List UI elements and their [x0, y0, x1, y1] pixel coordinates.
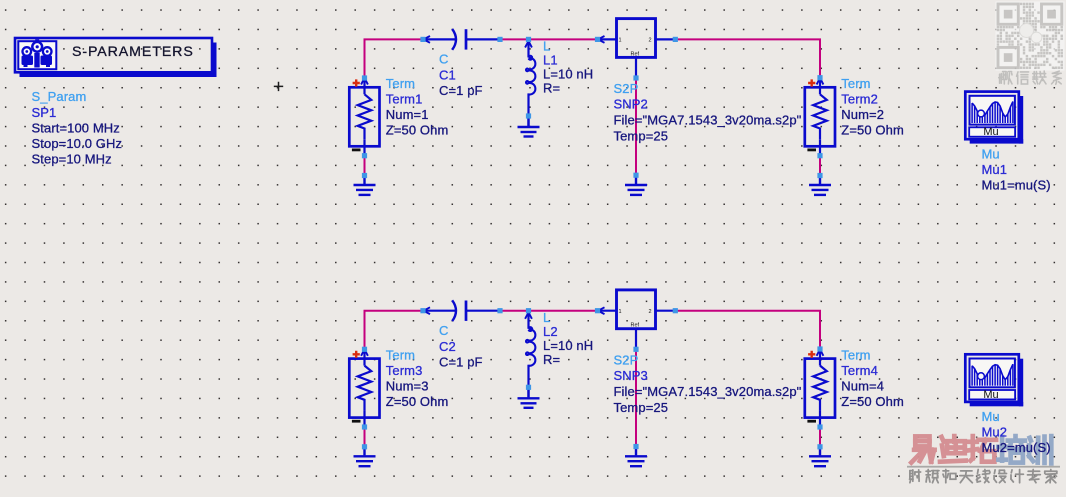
wire SNP3 to Term4 — [675, 311, 820, 349]
label Term3 — [386, 347, 449, 409]
svg-text:Ref: Ref — [631, 51, 640, 57]
svg-text:Temp=25: Temp=25 — [614, 400, 669, 415]
plus marker Term3 — [353, 351, 360, 358]
plus marker Term2 — [808, 79, 815, 86]
svg-text:Step=10 MHz: Step=10 MHz — [32, 151, 112, 166]
s2p block SNP2 — [598, 19, 676, 78]
label L1 — [543, 39, 593, 96]
svg-text:Z=50 Ohm: Z=50 Ohm — [386, 394, 449, 409]
ground — [354, 176, 376, 195]
S-PARAMETERS controller SP1 — [15, 38, 217, 77]
svg-text:S_Param: S_Param — [32, 89, 87, 104]
minus marker Term3 — [352, 420, 361, 423]
svg-text:L=10 nH: L=10 nH — [543, 338, 593, 353]
svg-text:Mu1=mu(S): Mu1=mu(S) — [982, 177, 1051, 192]
gears icon — [22, 39, 53, 67]
svg-text:Mu: Mu — [983, 389, 998, 401]
watermark logo text — [911, 436, 1051, 463]
svg-text:Start=100 MHz: Start=100 MHz — [32, 121, 120, 136]
label C2 — [439, 323, 483, 370]
svg-text:C=1 pF: C=1 pF — [439, 354, 483, 369]
wire C2 to SNP3 — [500, 310, 598, 312]
watermark subtitle — [910, 470, 1057, 483]
mu block Mu2 — [965, 354, 1023, 406]
svg-text:Stop=10.0 GHz: Stop=10.0 GHz — [32, 136, 123, 151]
label Mu1 — [982, 146, 1051, 192]
svg-text:Mu: Mu — [982, 146, 1000, 161]
mu block Mu1 — [965, 92, 1023, 144]
plus marker Term1 — [353, 79, 360, 86]
terminator Term4 — [805, 349, 835, 427]
minus marker Term1 — [352, 149, 361, 152]
svg-text:Mu: Mu — [982, 409, 1000, 424]
label Mu2 — [982, 409, 1051, 455]
svg-text:File="MGA7.1543_3v20ma.s2p": File="MGA7.1543_3v20ma.s2p" — [614, 384, 802, 399]
ground — [809, 176, 831, 195]
svg-text:Z=50 Ohm: Z=50 Ohm — [386, 123, 449, 138]
ground — [625, 175, 647, 195]
wire Term3 to ground — [364, 427, 366, 447]
svg-text:Temp=25: Temp=25 — [614, 129, 669, 144]
svg-text:SNP3: SNP3 — [614, 368, 648, 383]
origin cross marker — [274, 82, 283, 91]
plus marker Term4 — [808, 351, 815, 358]
svg-text:R=: R= — [543, 81, 560, 96]
wire SNP2 to Term2 — [675, 39, 820, 77]
svg-text:S-PARAMETERS: S-PARAMETERS — [72, 44, 194, 60]
label L2 — [543, 310, 593, 367]
svg-text:2: 2 — [649, 309, 652, 315]
wire junctions — [362, 37, 823, 178]
minus marker Term2 — [807, 149, 816, 152]
watermark underline — [907, 466, 1060, 468]
label C1 — [439, 52, 483, 99]
label SNP2 — [614, 81, 802, 144]
svg-text:Term: Term — [841, 76, 870, 91]
svg-text:Num=2: Num=2 — [841, 107, 884, 122]
ground — [518, 387, 540, 408]
svg-text:Term: Term — [386, 76, 415, 91]
wire C1 to SNP2 — [500, 38, 598, 40]
svg-text:L2: L2 — [543, 324, 558, 339]
capacitor C2 — [423, 300, 500, 321]
wire Term2 to ground — [819, 156, 821, 176]
svg-text:Num=4: Num=4 — [841, 378, 884, 393]
svg-text:L=10 nH: L=10 nH — [543, 67, 593, 82]
svg-text:1: 1 — [619, 309, 622, 315]
svg-text:Num=3: Num=3 — [386, 378, 429, 393]
ground — [809, 447, 831, 466]
label SP1 — [32, 89, 123, 166]
svg-text:Ref: Ref — [631, 323, 640, 329]
svg-text:Num=1: Num=1 — [386, 107, 429, 122]
svg-text:Term2: Term2 — [841, 92, 878, 107]
svg-text:C: C — [439, 52, 449, 67]
svg-text:L: L — [543, 39, 550, 54]
svg-text:C: C — [439, 323, 449, 338]
wire junctions — [362, 308, 823, 449]
wire SNP2 to ground — [635, 78, 637, 175]
svg-text:SP1: SP1 — [32, 105, 57, 120]
terminator Term2 — [805, 78, 835, 156]
label Term1 — [386, 76, 449, 138]
inductor L2 — [525, 311, 535, 397]
s2p block SNP3 — [598, 290, 676, 349]
qr code watermark — [996, 2, 1065, 71]
ground — [354, 447, 376, 466]
terminator Term1 — [349, 78, 379, 156]
svg-text:Mu2: Mu2 — [982, 425, 1008, 440]
svg-text:1: 1 — [619, 38, 622, 44]
svg-text:Term3: Term3 — [386, 363, 423, 378]
wire Term1 to ground — [364, 156, 366, 176]
wire Term4 to ground — [819, 427, 821, 447]
svg-text:S2P: S2P — [614, 352, 639, 367]
svg-text:Z=50 Ohm: Z=50 Ohm — [841, 123, 904, 138]
capacitor C1 — [423, 29, 500, 50]
svg-text:C2: C2 — [439, 339, 456, 354]
wechat contact text — [999, 71, 1061, 84]
svg-text:R=: R= — [543, 352, 560, 367]
svg-text:Term: Term — [841, 347, 870, 362]
svg-text:C=1 pF: C=1 pF — [439, 83, 483, 98]
ground — [625, 447, 647, 467]
svg-text:Term4: Term4 — [841, 363, 878, 378]
svg-text:S2P: S2P — [614, 81, 639, 96]
svg-text:Mu: Mu — [983, 126, 998, 138]
svg-text:2: 2 — [649, 38, 652, 44]
svg-text:C1: C1 — [439, 68, 456, 83]
inductor L1 — [525, 39, 535, 125]
label Term2 — [841, 76, 904, 138]
wire Term3 to C2 — [365, 311, 424, 350]
svg-text:Term1: Term1 — [386, 92, 423, 107]
terminator Term3 — [349, 349, 379, 427]
svg-text:File="MGA7.1543_3v20ma.s2p": File="MGA7.1543_3v20ma.s2p" — [614, 113, 802, 128]
svg-text:L: L — [543, 310, 550, 325]
svg-text:Mu2=mu(S): Mu2=mu(S) — [982, 440, 1051, 455]
label Term4 — [841, 347, 904, 409]
svg-text:L1: L1 — [543, 53, 558, 68]
svg-text:Mu1: Mu1 — [982, 162, 1008, 177]
label SNP3 — [614, 352, 802, 415]
svg-text:Z=50 Ohm: Z=50 Ohm — [841, 394, 904, 409]
ground — [518, 116, 540, 137]
minus marker Term4 — [807, 420, 816, 423]
svg-text:SNP2: SNP2 — [614, 97, 648, 112]
wire Term1 to C1 — [365, 39, 424, 78]
wire SNP3 to ground — [635, 349, 637, 446]
svg-text:Term: Term — [386, 347, 415, 362]
